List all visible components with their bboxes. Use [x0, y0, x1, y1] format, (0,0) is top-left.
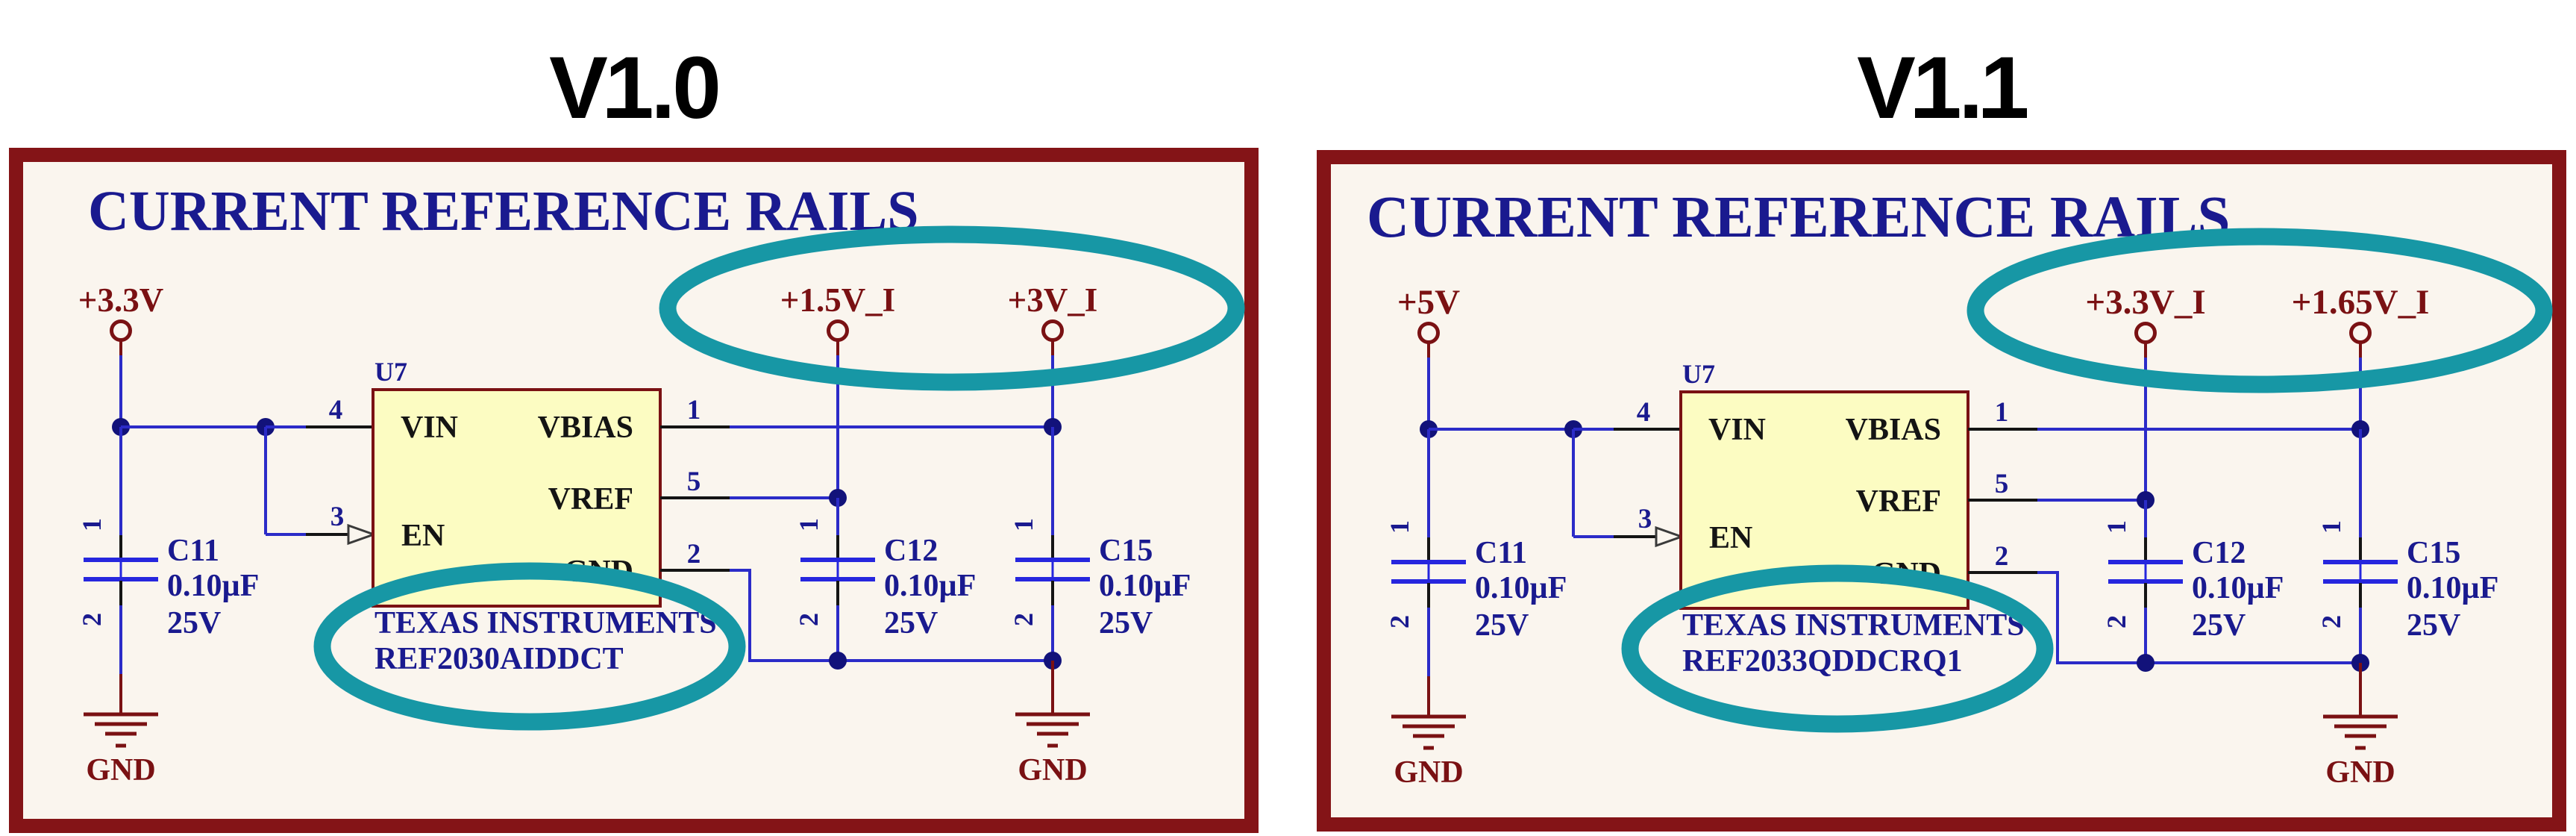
junction node VIN / EN branch [1564, 420, 1582, 438]
wire VREF net to reference rail column [730, 496, 838, 499]
IC U7 voltage reference body [1681, 392, 1968, 608]
svg-text:+3V_I: +3V_I [1008, 281, 1098, 319]
svg-text:+3.3V_I: +3.3V_I [2085, 283, 2205, 322]
pin 2 stub (GND) [660, 539, 731, 570]
svg-text:REF2033QDDCRQ1: REF2033QDDCRQ1 [1682, 644, 1963, 679]
capacitor C11 [77, 518, 259, 640]
wire bottom ground rail [2058, 661, 2360, 664]
junction node VIN / EN branch [257, 418, 275, 436]
schematic sheet frame (maroon border, cream background) [1324, 157, 2560, 825]
svg-text:2: 2 [2102, 615, 2131, 628]
svg-text:25V: 25V [2192, 608, 2246, 643]
svg-text:CURRENT REFERENCE RAILS: CURRENT REFERENCE RAILS [88, 180, 918, 243]
svg-text:GND: GND [1018, 753, 1087, 787]
wire EN branch horizontal [266, 533, 306, 536]
capacitor C11 [1385, 520, 1567, 643]
svg-text:EN: EN [401, 519, 445, 553]
annotation ellipse (changed part number) [322, 571, 737, 722]
svg-text:0.10µF: 0.10µF [2192, 571, 2284, 605]
junction node bottom rail / C12 [829, 652, 847, 670]
ground stub C15 [1051, 661, 1054, 714]
pin 3 stub (EN) with input arrow [306, 502, 374, 543]
svg-text:EN: EN [1709, 521, 1752, 555]
power port +1.5V_I (reference rail) [780, 281, 895, 355]
svg-text:C15: C15 [1099, 534, 1153, 568]
wire C12 to bottom rail [2144, 608, 2147, 663]
wire +1.65V_I column down to VBIAS node [2359, 358, 2362, 429]
svg-text:C12: C12 [2192, 536, 2246, 570]
wire VREF node down to C12 [836, 498, 839, 535]
svg-text:2: 2 [1995, 541, 2009, 572]
power port +5V (input rail) [1397, 283, 1460, 358]
svg-text:TEXAS INSTRUMENTS: TEXAS INSTRUMENTS [375, 606, 717, 640]
svg-text:4: 4 [1637, 397, 1651, 428]
junction node input rail / C11 [1420, 420, 1438, 438]
ground stub C15 [2359, 663, 2362, 717]
svg-text:4: 4 [329, 395, 343, 425]
wire EN branch horizontal [1573, 535, 1614, 538]
wire VBIAS net to +bias rail column [2037, 428, 2360, 431]
svg-text:0.10µF: 0.10µF [1475, 571, 1567, 605]
pin 4 stub (VIN) [1614, 397, 1681, 429]
svg-text:2: 2 [687, 539, 701, 570]
junction node VREF / C12 [2137, 491, 2154, 509]
svg-text:VBIAS: VBIAS [538, 411, 633, 445]
svg-text:25V: 25V [167, 606, 221, 640]
svg-text:VREF: VREF [548, 482, 633, 517]
ground stub C11 [119, 674, 122, 714]
schematic sheet frame (maroon border, cream background) [16, 155, 1252, 826]
junction node input rail / C11 [112, 418, 130, 436]
ground symbol below C15 [1015, 714, 1090, 787]
wire C12 to bottom rail [836, 605, 839, 661]
wire VBIAS net to +bias rail column [730, 425, 1053, 428]
svg-text:25V: 25V [1475, 608, 1529, 643]
junction node VBIAS / bias rail [2351, 420, 2369, 438]
svg-text:+1.65V_I: +1.65V_I [2292, 283, 2430, 322]
svg-text:2: 2 [77, 613, 107, 626]
svg-text:25V: 25V [1099, 606, 1153, 640]
wire VREF node down to C12 [2144, 500, 2147, 537]
power port +3.3V (input rail) [78, 281, 163, 355]
wire +3.3V rail down to VIN row [119, 355, 122, 427]
junction node bottom rail / C15 / ground [2351, 654, 2369, 672]
svg-text:3: 3 [330, 502, 345, 532]
svg-text:2: 2 [2316, 615, 2346, 628]
wire C11 to ground [1427, 608, 1430, 676]
svg-text:+1.5V_I: +1.5V_I [780, 281, 895, 319]
wire VIN row to pin stub [1573, 428, 1614, 431]
wire C15 to bottom rail [2359, 608, 2362, 663]
svg-text:U7: U7 [375, 357, 407, 387]
wire +5V rail down to VIN row [1427, 358, 1430, 429]
svg-text:C15: C15 [2407, 536, 2460, 570]
pin 2 stub (GND) [1968, 541, 2039, 573]
wire EN branch vertical [1572, 429, 1575, 537]
svg-text:+5V: +5V [1397, 283, 1460, 322]
wire C11 to ground [119, 605, 122, 674]
wire EN branch vertical [264, 427, 267, 534]
svg-text:0.10µF: 0.10µF [884, 569, 976, 603]
power port +3.3V_I (reference rail) [2085, 283, 2205, 358]
wire +3V_I column down to VBIAS node [1051, 355, 1054, 427]
wire input rail down to C11 [119, 427, 122, 535]
svg-text:2: 2 [1009, 613, 1038, 626]
svg-text:C11: C11 [167, 534, 219, 568]
svg-text:C12: C12 [884, 534, 938, 568]
capacitor C12 [2102, 520, 2284, 643]
pin 5 stub (VREF) [1968, 469, 2037, 500]
svg-text:VBIAS: VBIAS [1846, 413, 1941, 447]
wire VIN row from rail to EN branch [1429, 428, 1575, 431]
capacitor C15 [2316, 520, 2498, 643]
pin 1 stub (VBIAS) [1968, 397, 2037, 429]
svg-text:1: 1 [1385, 520, 1414, 534]
wire +3.3V_I column down through VBIAS row to VREF node [2144, 358, 2147, 500]
svg-text:1: 1 [687, 395, 701, 425]
svg-text:1: 1 [794, 518, 824, 531]
svg-text:5: 5 [687, 467, 701, 497]
svg-text:VIN: VIN [401, 411, 458, 445]
svg-text:V1.0: V1.0 [549, 39, 718, 137]
wire VBIAS node down to C15 [2359, 429, 2362, 537]
pin 5 stub (VREF) [660, 467, 730, 498]
annotation ellipse (changed part number) [1630, 573, 2045, 724]
annotation ellipse (changed power rails) [668, 234, 1236, 382]
svg-text:3: 3 [1638, 504, 1652, 534]
svg-text:GND: GND [2325, 755, 2395, 790]
svg-text:V1.1: V1.1 [1857, 39, 2027, 137]
wire VBIAS node down to C15 [1051, 427, 1054, 535]
svg-text:VREF: VREF [1856, 484, 1941, 519]
wire GND pin down to bottom rail [2037, 573, 2058, 664]
svg-text:0.10µF: 0.10µF [167, 569, 259, 603]
wire VIN row from rail to EN branch [121, 425, 267, 428]
wire C15 to bottom rail [1051, 605, 1054, 661]
svg-text:GND: GND [1394, 755, 1463, 790]
svg-text:1: 1 [1995, 397, 2009, 428]
version heading V1.0 [549, 39, 718, 137]
junction node bottom rail / C15 / ground [1044, 652, 1062, 670]
svg-text:1: 1 [77, 518, 107, 531]
pin 1 stub (VBIAS) [660, 395, 730, 427]
capacitor C12 [794, 518, 976, 640]
svg-text:25V: 25V [2407, 608, 2460, 643]
IC U7 voltage reference body [373, 390, 660, 606]
svg-text:GND: GND [86, 753, 155, 787]
junction node VREF / C12 [829, 489, 847, 507]
svg-text:TEXAS INSTRUMENTS: TEXAS INSTRUMENTS [1682, 608, 2025, 643]
ground symbol below C15 [2323, 717, 2398, 790]
power port +3V_I (bias rail) [1008, 281, 1098, 355]
wire VIN row to pin stub [266, 425, 306, 428]
svg-text:+3.3V: +3.3V [78, 281, 163, 319]
version heading V1.1 [1857, 39, 2027, 137]
svg-text:1: 1 [1009, 518, 1038, 531]
svg-text:0.10µF: 0.10µF [1099, 569, 1191, 603]
ground stub C11 [1427, 676, 1430, 717]
svg-text:2: 2 [794, 613, 824, 626]
junction node VBIAS / bias rail [1044, 418, 1062, 436]
ground symbol below C11 [84, 714, 158, 787]
svg-text:C11: C11 [1475, 536, 1527, 570]
wire VREF net to reference rail column [2037, 499, 2146, 502]
svg-text:REF2030AIDDCT: REF2030AIDDCT [375, 642, 624, 676]
capacitor C15 [1009, 518, 1191, 640]
pin 3 stub (EN) with input arrow [1614, 504, 1682, 546]
wire +1.5V_I column down through VBIAS row to VREF node [836, 355, 839, 498]
svg-text:CURRENT REFERENCE RAILS: CURRENT REFERENCE RAILS [1367, 185, 2230, 250]
ground symbol below C11 [1391, 717, 1466, 790]
svg-text:VIN: VIN [1708, 413, 1766, 447]
wire input rail down to C11 [1427, 429, 1430, 537]
pin 4 stub (VIN) [306, 395, 373, 427]
power port +1.65V_I (bias rail) [2292, 283, 2430, 358]
svg-text:2: 2 [1385, 615, 1414, 628]
svg-text:U7: U7 [1682, 359, 1715, 389]
junction node bottom rail / C12 [2137, 654, 2154, 672]
svg-text:0.10µF: 0.10µF [2407, 571, 2498, 605]
svg-text:1: 1 [2316, 520, 2346, 534]
svg-text:1: 1 [2102, 520, 2131, 534]
annotation ellipse (changed power rails) [1975, 237, 2544, 384]
wire bottom ground rail [750, 659, 1053, 662]
wire GND pin down to bottom rail [730, 570, 750, 662]
svg-text:25V: 25V [884, 606, 938, 640]
svg-text:5: 5 [1995, 469, 2009, 499]
